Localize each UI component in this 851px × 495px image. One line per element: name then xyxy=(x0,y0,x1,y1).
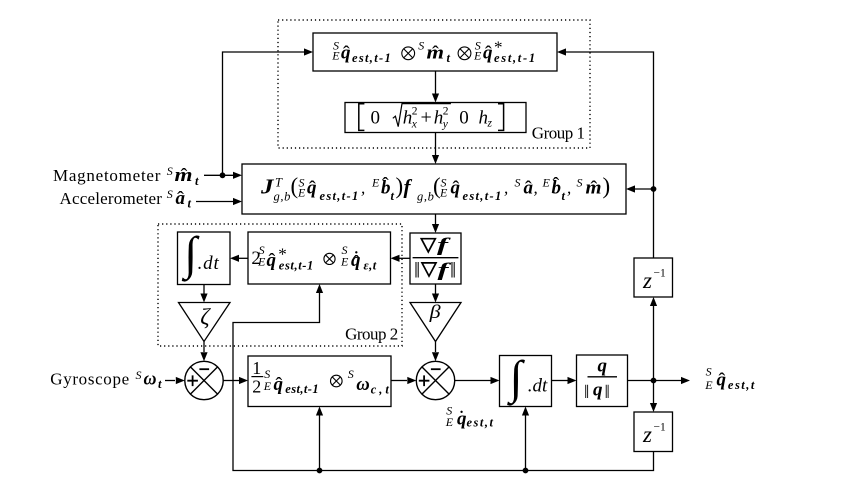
wire beta to S2 xyxy=(435,342,437,353)
block B7 half q omega box xyxy=(248,356,391,407)
svg-text:+: + xyxy=(421,106,432,128)
arrowhead into zeta top xyxy=(200,294,207,303)
svg-text:0: 0 xyxy=(371,108,381,129)
block B3 Jacobian box xyxy=(242,164,626,214)
svg-text:ˆ: ˆ xyxy=(382,174,389,196)
block B2 matrix box xyxy=(345,103,526,133)
arrowhead into B6 right xyxy=(391,255,400,262)
wire upper z-1 to top feedback xyxy=(566,52,654,258)
wire bottom to B8 xyxy=(525,416,527,471)
svg-text:): ) xyxy=(603,174,611,199)
svg-text:ˆ: ˆ xyxy=(452,178,459,200)
svg-text:est,t: est,t xyxy=(467,416,495,430)
svg-text:t: t xyxy=(195,174,199,188)
wire B8 to B9 xyxy=(552,380,568,382)
svg-text:T: T xyxy=(275,176,283,190)
wire B3 to B4 xyxy=(435,214,437,224)
svg-text:,: , xyxy=(504,179,508,198)
svg-text:E: E xyxy=(371,176,380,190)
svg-text:Group 2: Group 2 xyxy=(345,324,398,343)
svg-text:ˆ: ˆ xyxy=(552,174,559,196)
svg-text:S: S xyxy=(706,365,712,379)
svg-text:t: t xyxy=(188,197,192,211)
svg-text:t: t xyxy=(158,377,162,391)
arrowhead into beta top xyxy=(432,294,439,303)
svg-text:ˆ: ˆ xyxy=(275,374,282,396)
svg-text:y: y xyxy=(442,119,449,131)
svg-text:S: S xyxy=(515,176,521,190)
arrowhead into S1 left xyxy=(176,377,185,384)
svg-text:t: t xyxy=(562,189,566,203)
wire bottom to B7 xyxy=(319,416,321,471)
svg-text:E: E xyxy=(542,176,551,190)
wire accelerometer input xyxy=(196,201,233,203)
svg-text:E: E xyxy=(340,255,349,269)
arrowhead into B7 bottom xyxy=(316,407,323,416)
block B10 upper z-1 box xyxy=(634,258,673,297)
svg-text:t: t xyxy=(391,189,395,203)
svg-text:E: E xyxy=(263,379,272,393)
wire B6 to B5 xyxy=(239,257,248,259)
block B11 lower z-1 box xyxy=(634,412,673,452)
B4 fraction xyxy=(421,239,435,252)
arrowhead into B3 left mag xyxy=(233,172,242,179)
wire junction to upper z-1 xyxy=(653,306,655,381)
svg-text:2: 2 xyxy=(443,105,449,117)
arrowhead into B7 left xyxy=(239,377,248,384)
svg-text:‖: ‖ xyxy=(584,382,589,403)
arrowhead into B11 top xyxy=(650,403,657,412)
S1 minus sign xyxy=(199,368,209,370)
svg-text:z: z xyxy=(642,422,652,447)
svg-text:2: 2 xyxy=(412,105,418,117)
summing junction S1 circle xyxy=(185,361,223,399)
svg-text:ˆ: ˆ xyxy=(590,178,597,200)
svg-text:ˆ: ˆ xyxy=(343,43,350,65)
svg-text:.dt: .dt xyxy=(528,376,548,397)
svg-text:ˆ: ˆ xyxy=(718,370,725,392)
block B9 normalize box xyxy=(577,355,628,407)
svg-text:ˆ: ˆ xyxy=(309,178,316,200)
svg-text:E: E xyxy=(445,415,454,429)
arrowhead into B5 right xyxy=(230,255,239,262)
svg-text:E: E xyxy=(439,186,448,200)
svg-text:ε,t: ε,t xyxy=(364,258,377,272)
svg-text:S: S xyxy=(167,164,173,178)
wire S2 to B8 xyxy=(455,380,491,382)
svg-text:est,t-1: est,t-1 xyxy=(494,51,537,65)
block B1 quaternion product box xyxy=(313,33,557,71)
svg-text:˙: ˙ xyxy=(458,406,465,431)
arrowhead into B1 left xyxy=(304,48,313,55)
svg-text:Accelerometer: Accelerometer xyxy=(60,189,163,208)
summing junction S2 circle xyxy=(416,361,454,399)
junction dot output line xyxy=(651,378,657,384)
junction dot right feedback xyxy=(651,186,657,192)
arrowhead output xyxy=(681,377,690,384)
svg-text:t: t xyxy=(447,51,451,65)
svg-text:,: , xyxy=(567,179,571,198)
junction dot bottom B8 xyxy=(523,468,529,474)
S2 plus sign xyxy=(419,375,430,386)
wire magnetometer input xyxy=(204,174,233,176)
arrowhead into B3 right xyxy=(626,185,635,192)
svg-text:−1: −1 xyxy=(654,422,666,434)
Group 2 dotted box xyxy=(158,224,402,346)
svg-text:S: S xyxy=(418,38,424,52)
svg-text:ω: ω xyxy=(144,368,157,389)
svg-text:S: S xyxy=(167,187,173,201)
summing junction S2 cross xyxy=(422,367,449,394)
Group 1 dotted box xyxy=(278,20,590,148)
block B4 gradient normalize box xyxy=(410,233,461,284)
svg-text:z: z xyxy=(642,268,652,293)
junction dot mag line xyxy=(220,172,226,178)
svg-text:est,t: est,t xyxy=(728,378,756,392)
svg-text:est,t-1: est,t-1 xyxy=(352,51,392,65)
svg-text:β: β xyxy=(428,303,441,323)
wire B1 to B2 xyxy=(435,71,437,94)
block B6 2q conj qdot box xyxy=(248,232,391,284)
wire feedback to B3 right xyxy=(635,188,654,190)
svg-text:est,t-1: est,t-1 xyxy=(463,189,503,203)
arrowhead into S1 top xyxy=(200,352,207,361)
wire B4 to B6 xyxy=(399,257,410,259)
svg-text:Gyroscope: Gyroscope xyxy=(50,369,130,388)
svg-text:c,t: c,t xyxy=(371,383,392,397)
svg-text:est,t-1: est,t-1 xyxy=(285,382,319,396)
svg-text:E: E xyxy=(331,48,340,62)
wire B4 to beta xyxy=(435,284,437,294)
wire B9 to output xyxy=(628,380,682,382)
arrowhead into B8 bottom xyxy=(522,407,529,416)
svg-text:ˆ: ˆ xyxy=(525,178,532,200)
svg-text:S: S xyxy=(577,176,583,190)
svg-text:q: q xyxy=(593,380,603,401)
svg-text:est,t-1: est,t-1 xyxy=(279,258,314,272)
svg-text:,: , xyxy=(534,179,538,198)
svg-text:Magnetometer: Magnetometer xyxy=(53,166,161,185)
arrowhead into B9 left xyxy=(568,377,577,384)
arrowhead into B3 left acc xyxy=(233,198,242,205)
svg-text:‖: ‖ xyxy=(605,382,610,403)
wire B7 to S2 xyxy=(391,380,407,382)
summing junction S1 cross xyxy=(190,367,217,394)
svg-text:‖: ‖ xyxy=(450,258,456,283)
wire bottom feedback xyxy=(233,293,654,471)
svg-text:˙: ˙ xyxy=(353,246,360,271)
svg-text:g,b: g,b xyxy=(417,190,434,204)
svg-text:S: S xyxy=(348,367,354,381)
block B8 main integrator box xyxy=(500,356,552,407)
svg-text:x: x xyxy=(411,119,418,131)
beta gain triangle xyxy=(410,303,461,342)
arrowhead into B8 left xyxy=(491,377,500,384)
svg-text:ω: ω xyxy=(356,374,370,395)
svg-text:1: 1 xyxy=(252,358,261,378)
svg-text:E: E xyxy=(473,48,482,62)
svg-text:S: S xyxy=(136,368,142,382)
junction dot bottom B7 xyxy=(317,468,323,474)
svg-text:‖: ‖ xyxy=(414,258,420,283)
S1 plus sign xyxy=(187,375,198,386)
zeta gain triangle xyxy=(179,303,231,342)
svg-text:Group 1: Group 1 xyxy=(532,124,585,143)
arrowhead into S2 top xyxy=(432,352,439,361)
svg-text:g,b: g,b xyxy=(274,190,291,204)
svg-text:0: 0 xyxy=(459,108,469,129)
wire junction to lower z-1 xyxy=(653,381,655,404)
wire gyroscope input xyxy=(165,380,175,382)
svg-text:2: 2 xyxy=(252,377,261,397)
wire B2 to B3 xyxy=(435,133,437,156)
B2 matrix contents xyxy=(359,104,365,131)
arrowhead into B2 top xyxy=(432,94,439,103)
svg-text:est,t-1: est,t-1 xyxy=(320,189,360,203)
svg-text:z: z xyxy=(487,118,493,130)
wire S1 to B7 xyxy=(223,380,239,382)
svg-text:E: E xyxy=(297,186,306,200)
wire zeta to S1 xyxy=(203,342,205,353)
svg-text:ˆ: ˆ xyxy=(268,250,275,272)
svg-text:ˆ: ˆ xyxy=(177,188,184,210)
arrowhead into B6 bottom xyxy=(316,284,323,293)
svg-text:.dt: .dt xyxy=(198,253,220,274)
arrowhead into B10 bottom xyxy=(650,297,657,306)
wire magnetometer branch up xyxy=(223,52,305,175)
svg-text:,: , xyxy=(361,179,365,198)
svg-text:−1: −1 xyxy=(654,268,666,280)
svg-text:): ) xyxy=(396,174,404,199)
svg-text:q: q xyxy=(598,356,608,377)
svg-text:ˆ: ˆ xyxy=(485,43,492,65)
svg-text:E: E xyxy=(704,378,713,392)
svg-text:ˆ: ˆ xyxy=(432,43,439,65)
wire B5 to zeta xyxy=(203,285,205,295)
arrowhead into S2 left xyxy=(407,377,416,384)
svg-text:E: E xyxy=(257,255,266,269)
S2 minus sign xyxy=(431,368,441,370)
svg-text:ˆ: ˆ xyxy=(181,165,188,187)
block B5 integrator box group2 xyxy=(178,232,231,285)
arrowhead into B4 top xyxy=(432,224,439,233)
arrowhead into B1 right xyxy=(557,48,566,55)
arrowhead into B3 top xyxy=(432,155,439,164)
